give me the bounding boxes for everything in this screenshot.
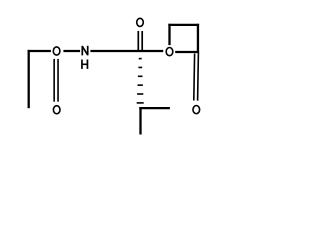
wire right C=O double bond line 2 — [197, 53, 200, 101]
atom O5 carbonyl oxygen lower-right — [193, 106, 200, 114]
atom O1 ester oxygen — [53, 47, 60, 55]
wire ring bottom bond — [175, 51, 199, 53]
wire C=O left double bond line 1 — [53, 59, 55, 102]
wire isopropyl C-CH3 vertical bond — [139, 107, 141, 135]
wire central C=O double bond line 2 — [141, 31, 143, 51]
wire ring right vertical bond — [197, 24, 199, 53]
wire ring left vertical bond — [168, 24, 170, 45]
atom N amide nitrogen — [82, 46, 87, 56]
wire central C=O double bond line 1 — [137, 31, 139, 51]
wire isopropyl C-CH3 horizontal bond — [139, 107, 170, 109]
wire O1-N bond — [63, 50, 80, 52]
atom H on nitrogen — [82, 60, 88, 69]
atom O4 ring oxygen — [166, 48, 173, 56]
wire C=O left double bond line 2 — [57, 59, 59, 102]
wire N-C-O4 backbone bond — [90, 50, 163, 52]
wire C-O1 horizontal bond — [28, 50, 51, 52]
hashed stereo bond (6 dashes) — [137, 58, 144, 104]
wire ring top bond — [168, 24, 199, 26]
wire ethyl C-C vertical bond — [28, 50, 30, 108]
atom O3 carbonyl oxygen top-center — [137, 18, 144, 26]
atom O2 carbonyl oxygen lower-left — [53, 106, 60, 114]
wire right C=O double bond line 1 — [193, 54, 196, 101]
